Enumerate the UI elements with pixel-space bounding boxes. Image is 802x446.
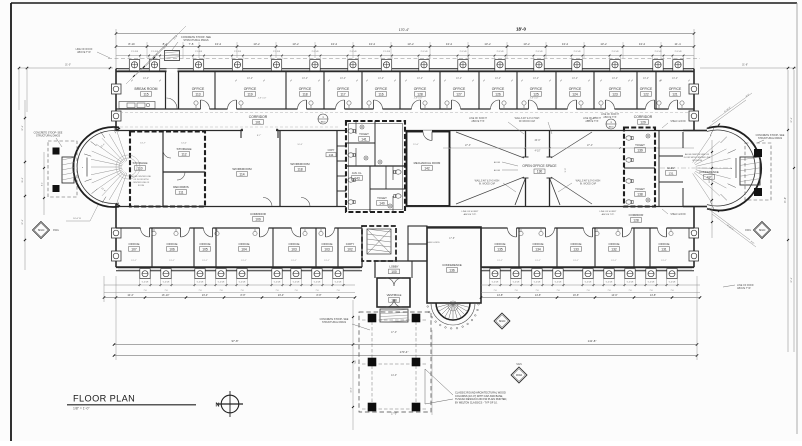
open office dim string [443,147,694,149]
svg-text:16'-6": 16'-6" [573,294,579,297]
svg-text:7'-8: 7'-8 [586,290,589,292]
svg-text:CORRIDOR: CORRIDOR [629,213,644,217]
svg-text:106: 106 [169,247,175,251]
svg-text:OF ROOM: OF ROOM [692,160,702,162]
top-left diagonal dim fan [126,44,166,84]
right rotunda entry opening [732,158,740,178]
svg-text:OFFICE: OFFICE [167,242,178,246]
svg-text:TOILET: TOILET [359,132,369,136]
svg-text:125: 125 [533,92,539,96]
svg-text:LINE OF SOFFIT: LINE OF SOFFIT [601,114,619,116]
svg-text:7'-8: 7'-8 [649,290,652,292]
svg-text:122: 122 [643,92,649,96]
svg-text:7'-8: 7'-8 [143,290,146,292]
svg-text:2'-5 5/8: 2'-5 5/8 [497,51,505,53]
keynote diamond right [754,222,771,239]
svg-text:123: 123 [612,92,618,96]
svg-text:134: 134 [535,247,541,251]
corridor upper: lower wall [116,130,346,132]
svg-text:13'-2": 13'-2" [661,260,667,262]
svg-text:13'-2": 13'-2" [643,77,649,80]
svg-text:111: 111 [178,190,183,194]
portico dashed outline [359,312,431,412]
storage doors [163,150,171,158]
vestibule doors [386,278,394,286]
left porch dashed surround [48,141,77,197]
svg-text:138: 138 [637,192,643,196]
svg-text:2'-5 5/8: 2'-5 5/8 [675,51,683,53]
toilet core heavy dashed walls [346,121,405,212]
room: WORKROOM 118 [336,131,338,207]
svg-text:11'-4: 11'-4 [674,42,681,46]
svg-text:8'-10: 8'-10 [128,42,135,46]
svg-text:7'-8: 7'-8 [240,290,243,292]
svg-text:N: N [216,403,220,409]
left rotunda chord connectors [116,128,120,131]
svg-text:LINE OF SOFFIT: LINE OF SOFFIT [469,118,487,120]
svg-text:13'-2: 13'-2 [331,42,338,46]
svg-text:STRUCTURAL DWGS: STRUCTURAL DWGS [36,135,60,138]
top offices lower wall [116,108,694,110]
svg-text:131: 131 [661,247,667,251]
svg-text:7'-8: 7'-8 [670,290,673,292]
svg-text:TOILET: TOILET [377,196,387,200]
left rotunda entry opening [83,158,91,177]
svg-text:8'-4": 8'-4" [42,182,44,186]
svg-text:7'-8: 7'-8 [189,42,194,46]
svg-text:144: 144 [329,153,334,157]
svg-text:13'-2": 13'-2" [378,77,384,80]
svg-text:37'-4": 37'-4" [22,219,24,225]
svg-text:170'-4": 170'-4" [399,28,410,32]
svg-text:OFFICE: OFFICE [244,87,257,91]
svg-text:ABOVE TYP.: ABOVE TYP. [464,213,477,216]
svg-text:117: 117 [340,92,345,96]
left rotunda walls [73,127,119,207]
bottom extension verticals [115,276,117,360]
column (right porch lower) [754,188,762,196]
vestibule entry stoop hatched [380,309,408,322]
svg-text:16'-10": 16'-10" [162,294,170,297]
roof dashed line above top wall [108,57,700,59]
svg-text:OFFICE: OFFICE [453,87,466,91]
svg-text:13'-2: 13'-2 [523,42,530,46]
svg-text:18'-0: 18'-0 [516,27,526,32]
bottom dim rows left wing [104,284,355,286]
svg-text:LINE OF SOFFIT: LINE OF SOFFIT [583,118,601,120]
column (portico 3) [368,358,377,367]
svg-text:13'-2: 13'-2 [215,42,222,46]
svg-text:101: 101 [255,120,261,124]
svg-text:COPY: COPY [346,242,355,246]
column (portico 4) [412,358,421,367]
mechanical room walls [407,132,450,207]
svg-text:5'-0 5/8: 5'-0 5/8 [335,282,342,284]
svg-text:OFFICE: OFFICE [571,242,582,246]
svg-text:37'-4": 37'-4" [791,117,793,123]
svg-text:5'-0 5/8: 5'-0 5/8 [314,282,321,284]
svg-text:ABOVE TYP.: ABOVE TYP. [737,287,751,290]
svg-text:7'-8: 7'-8 [294,290,297,292]
svg-text:OFFICE: OFFICE [609,242,620,246]
mechanical room door [423,130,432,133]
open office bottom stubs/angled walls [525,178,527,207]
svg-text:13'-2": 13'-2" [672,77,678,80]
entry vestibule walls top-left [165,71,167,109]
svg-text:10'-4": 10'-4" [127,294,133,297]
svg-text:18'-4": 18'-4" [709,177,711,183]
svg-text:141: 141 [361,137,367,141]
svg-text:W/ WOOD CAP: W/ WOOD CAP [519,120,536,123]
svg-text:4'-8" 4'-8": 4'-8" 4'-8" [414,98,423,100]
svg-text:OFFICE: OFFICE [192,87,205,91]
svg-text:7'-8: 7'-8 [336,290,339,292]
extra right rotunda diagonals [712,93,752,122]
column (right porch upper) [754,149,762,157]
svg-text:31'-8": 31'-8" [742,64,748,67]
svg-text:8'-7": 8'-7" [257,135,262,137]
svg-text:121: 121 [672,92,678,96]
svg-text:5'-0 5/8: 5'-0 5/8 [585,282,592,284]
svg-text:46'-6": 46'-6" [534,139,540,142]
keynote diamond near bay [494,313,510,329]
svg-text:STRUCTURAL DWGS: STRUCTURAL DWGS [183,39,209,42]
svg-text:14'-6": 14'-6" [611,294,617,297]
svg-text:118: 118 [302,92,307,96]
left exterior wall upper [115,69,117,131]
top dim extension verticals [115,29,117,68]
svg-text:1/8" = 1'-0": 1/8" = 1'-0" [73,407,90,411]
svg-text:BREAK ROOM: BREAK ROOM [135,87,158,91]
svg-text:CORRIDOR: CORRIDOR [634,115,653,119]
svg-text:2'-5 5/8: 2'-5 5/8 [131,51,139,53]
svg-text:WALLS 48" & 9'-0 HIGH: WALLS 48" & 9'-0 HIGH [576,180,601,183]
svg-text:37'-4": 37'-4" [791,277,793,283]
svg-text:103: 103 [324,247,330,251]
svg-text:OFFICE: OFFICE [375,87,388,91]
svg-text:OFFICE: OFFICE [533,242,544,246]
right core toilets dashed walls [624,128,655,207]
svg-text:2'-5 5/8: 2'-5 5/8 [273,51,281,53]
svg-text:14'-0": 14'-0" [391,374,397,377]
right rotunda top/bottom connector walls [683,130,707,132]
svg-text:WORKROOM: WORKROOM [290,162,310,166]
svg-text:132: 132 [611,247,617,251]
svg-text:STRUCTURAL DWGS: STRUCTURAL DWGS [758,137,782,140]
svg-text:100: 100 [391,270,397,274]
svg-text:13'-2: 13'-2 [253,42,260,46]
keynote circle mid corridor [318,114,328,124]
open office top wall stubs [525,131,527,158]
svg-text:126: 126 [495,92,501,96]
svg-text:23'-4": 23'-4" [278,294,284,297]
top wall glazing [118,68,692,70]
svg-text:RECORDS: RECORDS [173,185,188,189]
svg-text:BY MELTON CLASSICS - TYP OF 10: BY MELTON CLASSICS - TYP OF 10. [455,401,498,404]
svg-text:7'-8: 7'-8 [628,290,631,292]
office light fixtures top [194,101,198,105]
svg-text:DOOR WITH CENTER LINE: DOOR WITH CENTER LINE [684,157,711,159]
svg-text:13'-2": 13'-2" [202,260,208,262]
page border frame [11,2,797,4]
svg-text:COPY: COPY [328,149,335,152]
svg-text:5'-0 5/8: 5'-0 5/8 [627,282,634,284]
long bottom dim line 170-4 [114,355,697,357]
top office partitions [178,71,180,109]
svg-text:OPEN OFFICE SPACE: OPEN OFFICE SPACE [522,164,557,168]
svg-text:5'-0 5/8: 5'-0 5/8 [218,282,225,284]
bottom exterior wall left wing [116,266,362,268]
top dimension row 3: per-window ticks [116,55,694,57]
svg-text:13'-2: 13'-2 [369,42,376,46]
svg-text:13'-2": 13'-2" [291,260,297,262]
svg-text:5'-0 5/8: 5'-0 5/8 [293,282,300,284]
copy room east wall [361,228,363,267]
svg-text:VESTIBULE: VESTIBULE [387,293,402,297]
bottom corridor walls [116,206,346,208]
door openings + swings top offices [201,108,210,111]
toilet partitions [355,121,357,134]
svg-text:102: 102 [347,247,353,251]
svg-text:2'-5 5/8: 2'-5 5/8 [460,51,468,53]
svg-text:13'-2": 13'-2" [169,260,175,262]
svg-text:2'-5 5/8: 2'-5 5/8 [421,51,429,53]
svg-text:4'-8" 4'-8": 4'-8" 4'-8" [258,98,267,100]
svg-text:8'-8": 8'-8" [241,294,246,297]
svg-text:LINE OF SOFFIT: LINE OF SOFFIT [600,211,618,213]
svg-text:7'-8: 7'-8 [164,290,167,292]
svg-text:DWG: DWG [745,229,751,232]
svg-text:OFFICE: OFFICE [129,242,140,246]
right rotunda walls [707,127,761,211]
right porch dashed surround [745,143,771,200]
svg-text:2'-5 5/8: 2'-5 5/8 [312,51,320,53]
concrete stoop bump + entry top-left [165,51,180,61]
svg-text:129: 129 [640,120,646,124]
svg-text:STORAGE: STORAGE [132,161,147,165]
svg-text:13'-2: 13'-2 [600,42,607,46]
svg-text:71'-8": 71'-8" [784,197,787,203]
svg-text:11'-0": 11'-0" [413,144,419,146]
svg-text:CORRIDOR: CORRIDOR [250,212,266,216]
svg-text:13'-2": 13'-2" [572,77,578,80]
copy strip closets [337,145,346,147]
svg-text:13'-2": 13'-2" [247,77,253,80]
svg-text:13'-7": 13'-7" [140,143,146,145]
svg-text:142: 142 [424,166,430,170]
bay scallop dots [427,306,429,308]
svg-text:OFFICE: OFFICE [640,87,653,91]
svg-text:14'-6": 14'-6" [181,143,187,145]
svg-text:31'-4": 31'-4" [22,177,24,183]
svg-text:7'-8: 7'-8 [198,290,201,292]
svg-text:OFFICE: OFFICE [239,242,250,246]
svg-text:TOILET: TOILET [635,143,645,147]
svg-text:128: 128 [633,218,639,222]
right entry stoop hatched [740,157,760,185]
svg-text:17'-8": 17'-8" [449,238,455,240]
top wall pilaster units [129,60,139,71]
svg-text:CONFERENCE: CONFERENCE [699,170,719,174]
svg-text:13'-2: 13'-2 [407,42,414,46]
right exterior wall lower [693,207,695,267]
svg-text:SIGN: SIGN [759,228,766,232]
left entry stoop hatched [62,157,74,183]
svg-text:ABOVE TYP.: ABOVE TYP. [603,116,617,119]
office light fixtures bottom [152,231,156,235]
svg-text:5'-0 5/8: 5'-0 5/8 [274,282,281,284]
column (portico 2) [412,314,421,323]
svg-text:141'-8": 141'-8" [588,339,597,343]
svg-text:7'-8: 7'-8 [514,290,517,292]
svg-text:OFFICE: OFFICE [414,87,427,91]
svg-text:2'-5 5/8: 2'-5 5/8 [234,51,242,53]
svg-text:13'-2": 13'-2" [131,260,137,262]
svg-text:OFFICE: OFFICE [299,87,312,91]
long bottom dim line 97-8 [114,344,697,346]
stair hatch [367,229,391,254]
svg-text:ABOVE TYP.: ABOVE TYP. [471,120,485,123]
svg-text:CONFERENCE: CONFERENCE [442,263,462,267]
svg-text:300A: 300A [516,373,522,377]
svg-text:34'-0": 34'-0" [351,387,353,393]
svg-text:13'-2": 13'-2" [533,77,539,80]
svg-text:FLOOR PLAN: FLOOR PLAN [73,394,135,404]
bottom exterior wall right wing [481,266,694,268]
svg-text:ABOVE TYP.: ABOVE TYP. [77,51,91,54]
svg-text:31'-0": 31'-0" [65,64,71,67]
svg-text:OFFICE: OFFICE [569,87,582,91]
svg-text:128: 128 [417,92,423,96]
svg-text:ABOVE TYP.: ABOVE TYP. [602,213,615,216]
vestibule walls [377,278,410,307]
svg-text:27'-3": 27'-3" [465,144,471,147]
svg-text:104: 104 [241,247,247,251]
small room near lobby [408,226,427,261]
svg-text:TOILET: TOILET [635,187,645,191]
svg-text:OFFICE: OFFICE [659,242,670,246]
conference bay window [436,303,470,320]
svg-text:133: 133 [573,247,579,251]
svg-text:5'-0 5/8: 5'-0 5/8 [606,282,613,284]
svg-text:7'-8: 7'-8 [275,290,278,292]
svg-text:OFFICE: OFFICE [289,242,300,246]
svg-text:131: 131 [668,171,673,175]
svg-text:105: 105 [202,247,208,251]
svg-text:13'-2": 13'-2" [456,77,462,80]
svg-text:IN. WOOD CAP: IN. WOOD CAP [479,183,496,186]
svg-text:OFFICE: OFFICE [322,242,333,246]
svg-text:OF DOOR WITH: OF DOOR WITH [134,179,150,181]
svg-text:5'-0 5/8: 5'-0 5/8 [669,282,676,284]
svg-text:116: 116 [378,92,383,96]
svg-text:CENTER LINE OF: CENTER LINE OF [133,182,150,184]
svg-text:112: 112 [181,152,186,156]
svg-text:118: 118 [297,167,302,171]
svg-text:13'-2: 13'-2 [639,42,646,46]
svg-text:127: 127 [456,92,462,96]
svg-text:ALIGN: ALIGN [494,161,501,164]
svg-text:OFFICE: OFFICE [495,242,506,246]
column (left porch lower) [53,185,60,192]
svg-text:27'-4": 27'-4" [587,144,593,147]
svg-text:13'-2": 13'-2" [302,77,308,80]
keynote circle right corridor [606,119,616,129]
svg-text:OFFICE: OFFICE [530,87,543,91]
svg-text:OFFICE: OFFICE [492,87,505,91]
svg-text:13'-2": 13'-2" [573,260,579,262]
svg-text:13'-2": 13'-2" [495,77,501,80]
svg-text:OFFICE: OFFICE [669,87,682,91]
svg-text:5'-0 5/8: 5'-0 5/8 [492,282,499,284]
svg-text:2'-5 5/8: 2'-5 5/8 [536,51,544,53]
column (left porch upper) [53,148,60,155]
svg-text:5'-0 5/8: 5'-0 5/8 [163,282,170,284]
bottom office partitions right wing [518,228,520,267]
svg-text:17'-0": 17'-0" [391,413,397,416]
svg-text:8'-8": 8'-8" [317,294,322,297]
svg-text:13'-2: 13'-2 [562,42,569,46]
svg-text:WALLS 48" & 9'-0 HIGH: WALLS 48" & 9'-0 HIGH [475,180,500,183]
overall top dimension line [116,33,694,35]
column (portico 6) [412,403,421,412]
top exterior wall [116,68,694,70]
svg-text:SIGN: SIGN [516,364,522,366]
room: CONFERENCE 136 [427,227,481,303]
svg-text:SIGN: SIGN [38,228,45,232]
svg-text:LOBBY: LOBBY [389,265,398,269]
svg-text:113: 113 [195,92,200,96]
svg-text:13'-2: 13'-2 [292,42,299,46]
svg-text:STRUCTURAL DWGS: STRUCTURAL DWGS [322,321,346,324]
toilet fixtures [348,129,355,133]
svg-text:13'-2": 13'-2" [340,77,346,80]
svg-text:5'-0": 5'-0" [565,168,567,173]
right rotunda radial fan [693,135,712,162]
svg-text:2'-5 5/8: 2'-5 5/8 [612,51,620,53]
svg-text:7'-8: 7'-8 [607,290,610,292]
toilet core inner walls [346,165,405,167]
svg-text:SHELF & ROD: SHELF & ROD [670,121,686,123]
svg-text:SIGN: SIGN [499,319,506,323]
storage suite heavy dashed walls [130,132,205,207]
svg-text:109: 109 [255,217,261,221]
svg-text:4'-10": 4'-10" [535,151,541,153]
room: WORKROOM 114 [279,131,281,207]
left rotunda radial fan [117,131,127,161]
svg-text:2'-5 5/8: 2'-5 5/8 [574,51,582,53]
svg-text:MECHANICAL ROOM: MECHANICAL ROOM [414,161,441,165]
elevator / closets [658,131,660,207]
svg-text:ALIGN CENTER LINE: ALIGN CENTER LINE [131,175,151,178]
svg-text:SHELF & ROD: SHELF & ROD [670,214,686,216]
svg-text:7'-8: 7'-8 [493,290,496,292]
svg-text:16'-0" R: 16'-0" R [73,218,81,220]
svg-text:ALIGN CENTER LINE OF: ALIGN CENTER LINE OF [685,153,710,156]
svg-text:5'-0 5/8: 5'-0 5/8 [142,282,149,284]
svg-text:2'-5 5/8: 2'-5 5/8 [383,51,391,53]
keynote diamond left (sign) [33,222,50,239]
bottom dim rows right wing [481,284,700,286]
svg-text:13'-2": 13'-2" [612,77,618,80]
svg-text:ROOM: ROOM [138,185,145,187]
svg-text:IN. WOOD CAP: IN. WOOD CAP [580,183,597,186]
svg-text:13'-2: 13'-2 [484,42,491,46]
svg-text:170'-4": 170'-4" [400,350,409,354]
svg-text:OFFICE: OFFICE [200,242,211,246]
svg-text:2'-5 5/8: 2'-5 5/8 [350,51,358,53]
column (portico 1) [368,314,377,323]
